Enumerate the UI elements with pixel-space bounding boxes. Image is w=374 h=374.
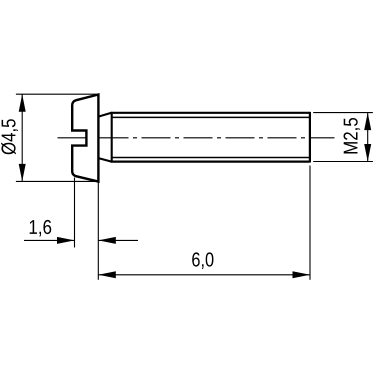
extension line right for 6,0 (from screw end) <box>309 166 311 280</box>
label diameter 4,5 (rotated) <box>1 119 18 154</box>
thread chamfer slant top <box>98 113 111 117</box>
dimension line 1,6 right segment <box>98 239 138 241</box>
dimension line 1,6 left segment <box>24 239 75 241</box>
screw head outline (slotted pan head, side view) <box>72 95 98 182</box>
label M2,5 (rotated) <box>344 118 361 153</box>
arrowhead down (M2,5 bottom) <box>364 144 371 162</box>
arrowhead up (M2,5 top) <box>364 113 371 131</box>
thread chamfer end vertical <box>111 112 113 163</box>
dimension line diameter 4,5 <box>21 94 23 181</box>
extension line top for diameter 4,5 <box>16 93 99 95</box>
arrowhead down (4,5 bottom) <box>19 164 26 182</box>
dimension line 6,0 <box>98 274 310 276</box>
thread major diameter line bottom <box>111 161 310 163</box>
thread minor (root) line bottom <box>112 157 310 159</box>
thread chamfer slant bottom <box>98 158 111 162</box>
arrowhead up (4,5 top) <box>19 94 26 112</box>
label 6,0 <box>192 252 213 269</box>
extension line left for 1,6 (from head bottom) <box>74 178 76 248</box>
arrowhead pointing right (6,0 right end) <box>293 271 311 278</box>
screw end face vertical <box>309 112 311 163</box>
extension line bottom for diameter 4,5 <box>16 180 99 182</box>
arrowhead pointing left (1,6 right, outside) <box>98 237 116 244</box>
centerline (screw axis, dash-dot) <box>58 137 335 139</box>
extension line bottom for M2,5 <box>313 161 373 163</box>
thread major diameter line top <box>111 112 310 114</box>
thread minor (root) line top <box>112 116 310 118</box>
label 1,6 <box>30 220 52 237</box>
dimension line M2,5 <box>367 113 369 162</box>
arrowhead pointing left (6,0 left end) <box>98 271 116 278</box>
arrowhead pointing right (1,6 left, outside) <box>57 237 75 244</box>
extension line shared (head right face down, for 1,6 and 6,0) <box>97 183 99 280</box>
extension line top for M2,5 <box>313 112 373 114</box>
